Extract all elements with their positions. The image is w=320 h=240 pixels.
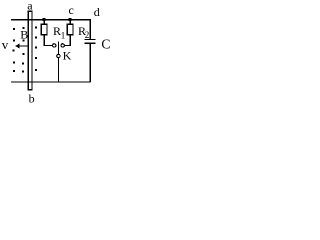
svg-text:C: C	[101, 37, 110, 52]
label v	[2, 37, 9, 52]
svg-text:a: a	[27, 0, 33, 12]
rod ab (sliding conductor)	[28, 11, 32, 90]
wire bottom rail	[11, 81, 91, 82]
junction node c at R2	[69, 18, 72, 21]
svg-text:v: v	[2, 37, 9, 52]
capacitor C plates	[85, 39, 96, 44]
label B	[20, 27, 28, 41]
wire top rail a-c-d	[11, 19, 91, 20]
wire right side (capacitor branch)	[90, 19, 91, 82]
label d	[94, 5, 100, 19]
switch contact circle left	[53, 44, 56, 47]
wire R1 bottom lead with corner to switch contact	[44, 35, 53, 46]
velocity arrow v	[15, 43, 28, 48]
svg-text:K: K	[63, 49, 72, 63]
wire R2 bottom lead with corner to switch contact	[65, 35, 71, 46]
svg-text:2: 2	[85, 30, 90, 40]
svg-text:b: b	[29, 92, 35, 105]
svg-text:1: 1	[61, 30, 66, 40]
label a	[27, 0, 33, 12]
label b	[29, 92, 35, 106]
svg-text:c: c	[69, 3, 74, 17]
field dots column 2	[22, 27, 25, 72]
switch K pivot circle	[57, 54, 60, 57]
wire switch to bottom rail	[58, 58, 59, 82]
wire R1 top lead	[44, 20, 45, 24]
switch K blade (open, vertical)	[58, 41, 59, 54]
label R1	[53, 24, 65, 40]
label R2	[78, 24, 89, 40]
label K	[63, 49, 72, 63]
field dots column 3	[35, 27, 37, 72]
label c	[69, 3, 74, 17]
field dots column 1	[12, 28, 15, 72]
resistor R2 box	[67, 24, 73, 35]
label C	[101, 37, 110, 52]
switch contact circle right	[61, 44, 64, 47]
junction node on rail at R1	[43, 18, 46, 21]
wire R2 top lead	[70, 20, 71, 24]
svg-text:d: d	[94, 5, 100, 19]
resistor R1 box	[41, 24, 47, 35]
